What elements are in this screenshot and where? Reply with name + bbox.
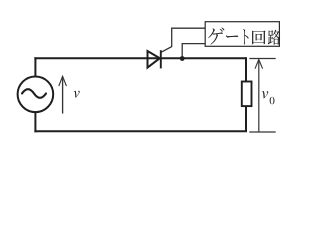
wire from cathode node to gate circuit: [182, 44, 205, 59]
wire left lower (source bottom lead): [34, 111, 36, 132]
wire top horizontal: [34, 57, 246, 59]
AC source circle: [18, 77, 54, 113]
resistor load R: [242, 82, 252, 107]
thyristor gate lead to gate circuit: [161, 28, 205, 52]
thyristor triangle (anode): [148, 51, 160, 68]
label v0 (output voltage): [262, 91, 268, 98]
wire left upper (source top lead): [34, 57, 36, 77]
arrow for output voltage v0: [255, 60, 263, 132]
gate circuit box: [205, 22, 279, 47]
label gate circuit (ゲート回路): [208, 28, 280, 45]
AC source sine wave: [22, 89, 46, 98]
wire bottom horizontal: [34, 130, 247, 132]
junction dot (cathode node): [180, 56, 185, 61]
label v (source voltage): [74, 91, 80, 98]
tick top (v0 reference): [249, 58, 275, 60]
wire right lower (load bottom lead): [245, 106, 247, 131]
arrow for source voltage v: [59, 76, 67, 113]
wire right upper (load top lead): [245, 57, 247, 81]
thyristor cathode bar: [160, 50, 162, 68]
tick bottom (v0 reference): [249, 131, 275, 133]
